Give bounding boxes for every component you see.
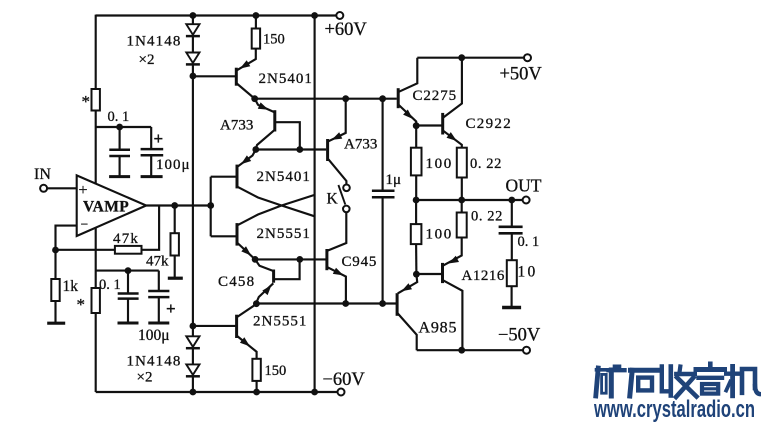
svg-text:+50V: +50V: [500, 65, 543, 85]
wire Q6 collector lead: [237, 304, 256, 317]
wire D3 top lead: [192, 326, 194, 336]
ground 47k vertical: [168, 277, 183, 280]
svg-text:0. 1: 0. 1: [108, 109, 130, 125]
arrow Q4 emitter: [241, 246, 251, 255]
svg-text:×2: ×2: [139, 52, 155, 68]
wire between D1 D2: [192, 37, 194, 53]
node bottom rail / 150 resistor: [253, 389, 260, 396]
wire Q2 collector lead: [256, 129, 275, 149]
switch K upper contact: [343, 185, 350, 192]
wire bottom -60V rail: [96, 391, 338, 393]
svg-text:*: *: [77, 295, 86, 314]
svg-text:47k: 47k: [113, 231, 139, 247]
node drive/1u cap: [379, 95, 386, 102]
wire long center vertical: [314, 16, 316, 393]
wire 1k to ground: [54, 301, 56, 322]
wire 1k top lead: [54, 250, 56, 279]
wire left vertical lower: [95, 313, 97, 392]
arrow Q1 emitter: [240, 60, 251, 68]
wire D4 to bottom rail: [192, 377, 194, 392]
wire 150 top lead: [255, 16, 257, 29]
node 0.1 cap top: [116, 124, 123, 131]
svg-text:+: +: [79, 182, 88, 199]
capacitor 100u lower plates: [148, 290, 169, 293]
wire Q5 base L-wire: [275, 261, 300, 279]
wire Q5 collector lead: [255, 259, 274, 271]
node A1216 base / A985 emitter: [413, 271, 420, 278]
resistor R 150 upper: [252, 29, 260, 49]
capacitor 0.1 lower lead: [127, 271, 129, 293]
node bottom rail / long vertical: [311, 389, 318, 396]
diode D1 1N4148: [186, 24, 199, 35]
watermark logo char yin: [696, 364, 725, 394]
arrow Q12 emitter: [401, 283, 412, 291]
capacitor 0.1 upper plates: [109, 149, 130, 152]
node top rail / diode column: [190, 12, 197, 19]
wire op-amp output: [146, 204, 211, 206]
svg-text:2N5551: 2N5551: [257, 226, 311, 242]
wire Q1 collector lead: [237, 84, 255, 99]
resistor 100 lower lead: [415, 200, 417, 224]
node +50V / C2922 collector: [458, 54, 465, 61]
svg-text:150: 150: [263, 32, 285, 48]
wire Q1 emitter lead: [237, 49, 256, 71]
node feedback: [52, 247, 59, 254]
resistor 1k: [51, 279, 59, 301]
transistor Q8 C945 bar: [325, 249, 328, 270]
resistor 0.22 lower: [457, 213, 467, 238]
wire 47k to output: [142, 206, 160, 250]
wire left vertical upper: [95, 15, 97, 89]
capacitor 100u lower bottom lead: [158, 297, 160, 322]
transistor Q4 2N5551 bar: [236, 223, 239, 246]
transistor Q6 2N5551 bar: [235, 315, 238, 338]
resistor 47k vertical lead: [174, 206, 176, 234]
arrow Q6 emitter: [240, 337, 250, 346]
svg-text:1N4148: 1N4148: [127, 354, 182, 370]
svg-text:0. 1: 0. 1: [518, 234, 540, 250]
svg-text:www.crystalradio.cn: www.crystalradio.cn: [593, 396, 755, 423]
svg-text:0. 1: 0. 1: [99, 277, 121, 293]
wire Q10 base: [416, 124, 441, 126]
wire Q5 emitter lead: [256, 283, 273, 303]
resistor R 150 lower: [252, 359, 260, 381]
node drive/A733-2 emitter: [342, 95, 349, 102]
terminal IN: [40, 185, 47, 192]
wire Q7 collector lead: [328, 159, 346, 184]
svg-text:VAMP: VAMP: [83, 199, 129, 216]
capacitor 100u upper lead: [150, 127, 152, 148]
capacitor 100u upper plates: [141, 148, 164, 151]
node diodes / 2N5401 base: [190, 73, 197, 80]
node drive/Q1 collector: [251, 95, 258, 102]
terminal -50V: [523, 347, 530, 354]
node OUT/0.22: [458, 197, 465, 204]
node top rail / 150 resistor: [253, 12, 260, 19]
terminal +60V: [336, 12, 343, 19]
svg-text:100: 100: [426, 156, 453, 172]
wire Q9 emitter lead: [399, 105, 416, 126]
resistor 47k horizontal: [115, 246, 142, 254]
node OUT/100: [413, 197, 420, 204]
wire Q1 base from diodes: [193, 75, 235, 77]
arrow Q8 emitter: [333, 268, 344, 276]
ground 1k: [47, 322, 65, 325]
capacitor 1u plates: [372, 190, 395, 193]
wire Q6 emitter lead: [237, 336, 257, 359]
node bottom drive / C945 emitter: [342, 300, 349, 307]
svg-text:2N5401: 2N5401: [259, 71, 313, 87]
svg-text:A1216: A1216: [462, 268, 505, 284]
svg-text:100: 100: [426, 227, 453, 243]
capacitor 0.1 upper bottom lead: [119, 156, 121, 176]
wire Q9 collector lead: [399, 58, 418, 92]
wire bottom drive line: [256, 302, 397, 304]
ground 0.1 upper: [109, 175, 130, 178]
node mid line right: [296, 146, 303, 153]
wire Q3 emitter lead: [238, 150, 256, 167]
wire caps line top: [96, 126, 152, 128]
wire op-amp output to bases vertical: [210, 177, 212, 237]
node OUT/0.1: [508, 197, 515, 204]
svg-text:A733: A733: [344, 137, 377, 153]
capacitor 0.1 lower plates: [118, 292, 139, 295]
wire Q8 collector lead: [328, 212, 347, 250]
wire Q12 emitter lead: [398, 274, 418, 293]
wire Q8 emitter lead: [328, 267, 346, 303]
resistor 100 upper lead: [415, 126, 417, 148]
svg-text:C2922: C2922: [466, 116, 513, 132]
transistor Q5 C458 bar: [272, 270, 275, 283]
switch K lever: [338, 185, 345, 205]
node lower mid left: [252, 256, 259, 263]
svg-text:C945: C945: [342, 254, 378, 270]
resistor 47k vertical: [171, 233, 179, 255]
node C2922 base: [413, 122, 420, 129]
resistor * upper: [92, 89, 100, 111]
wire 100 lower to node: [415, 244, 417, 274]
wire diode column middle: [192, 65, 194, 326]
node output/47k: [171, 202, 178, 209]
transistor Q10 C2922 bar: [441, 113, 444, 135]
wire Q10 emitter lead: [443, 131, 462, 148]
capacitor 0.1 right plates: [499, 225, 523, 228]
svg-text:47k: 47k: [146, 254, 169, 270]
diode D4 1N4148: [186, 364, 199, 375]
wire Q7 emitter lead: [328, 99, 345, 142]
wire Q3 base: [211, 176, 236, 178]
wire Q4 base: [211, 235, 236, 237]
watermark logo char ji: [726, 366, 761, 395]
svg-text:−50V: −50V: [498, 326, 541, 346]
svg-text:+: +: [154, 129, 164, 148]
wire caps line bottom: [96, 270, 159, 272]
capacitor 100u lower lead: [158, 271, 160, 291]
wire top +60V rail: [96, 14, 337, 16]
svg-text:−60V: −60V: [323, 370, 366, 390]
node 0.1 cap bottom: [125, 267, 132, 274]
node bottom drive / 1u cap: [379, 300, 386, 307]
arrow Q9 emitter: [403, 110, 413, 120]
op-amp VAMP triangle: [77, 175, 147, 236]
resistor 100 upper: [411, 148, 422, 176]
terminal OUT: [523, 197, 530, 204]
svg-text:−: −: [81, 217, 89, 232]
svg-text:1k: 1k: [63, 278, 79, 295]
diode D3 1N4148: [186, 336, 199, 347]
arrow Q5 emitter: [262, 285, 271, 295]
resistor * lower: [92, 288, 100, 313]
ground 100u upper: [141, 175, 163, 178]
node mid line left: [252, 146, 259, 153]
svg-text:10: 10: [518, 264, 538, 281]
wire -50V rail: [417, 349, 524, 351]
wire Q11 collector lead: [443, 280, 462, 350]
wire Q10 collector lead: [443, 58, 462, 118]
capacitor 0.1 upper lead: [119, 127, 121, 149]
svg-text:1μ: 1μ: [386, 172, 402, 188]
wire 100 upper to OUT: [415, 175, 417, 200]
wire Q2 emitter lead from node: [255, 99, 276, 113]
wire Q3 collector lead crossing: [238, 187, 315, 217]
svg-text:OUT: OUT: [506, 176, 542, 196]
svg-text:×2: ×2: [137, 370, 153, 386]
ground 0.1 lower: [118, 322, 139, 325]
resistor 100 lower: [411, 224, 422, 244]
transistor Q7 A733 bar: [326, 139, 329, 161]
svg-text:A733: A733: [220, 118, 253, 134]
node output/bases: [207, 202, 214, 209]
node lower mid right: [296, 256, 303, 263]
svg-text:A985: A985: [419, 320, 458, 337]
wire between D3 D4: [192, 349, 194, 365]
arrow Q11 emitter: [448, 256, 459, 264]
svg-text:IN: IN: [34, 166, 51, 183]
diode D2 1N4148: [186, 53, 199, 64]
svg-text:100μ: 100μ: [156, 157, 191, 173]
arrow Q7 emitter: [332, 132, 343, 140]
svg-text:2N5401: 2N5401: [257, 169, 311, 185]
node bottom rail / diode column: [190, 389, 197, 396]
wire feedback from minus input: [56, 226, 77, 250]
svg-text:0. 22: 0. 22: [471, 209, 503, 225]
svg-text:+: +: [166, 299, 176, 318]
wire Q4 collector lead crossing: [238, 195, 315, 225]
arrow Q2 emitter: [258, 102, 269, 109]
watermark logo char shi: [630, 370, 658, 396]
wire diode column top lead: [192, 16, 194, 25]
wire +50V rail: [417, 57, 524, 59]
svg-text:C458: C458: [218, 274, 255, 290]
wire OUT line: [416, 199, 523, 201]
transistor Q9 C2275 bar: [397, 88, 400, 108]
watermark logo char shou: [662, 367, 697, 398]
resistor 10 lead: [511, 233, 513, 260]
svg-text:100μ: 100μ: [138, 327, 170, 344]
transistor Q1 2N5401 bar: [235, 68, 238, 86]
svg-text:*: *: [82, 92, 91, 111]
svg-text:K: K: [327, 191, 339, 208]
watermark logo char kuang: [596, 366, 625, 396]
wire 0.22 upper to OUT: [461, 178, 463, 201]
arrow Q3 emitter: [241, 155, 251, 164]
transistor Q2 A733 bar: [273, 110, 276, 131]
wire Q6 base: [193, 325, 236, 327]
wire mid drive line upper: [256, 148, 326, 150]
wire 47k vertical to ground: [174, 256, 176, 278]
node -50V / A1216 collector: [458, 347, 465, 354]
resistor 0.22 lower lead: [461, 200, 463, 213]
svg-text:C2275: C2275: [413, 88, 458, 104]
svg-text:0. 22: 0. 22: [470, 156, 502, 172]
wire Q4 emitter lead: [238, 243, 256, 259]
svg-text:+60V: +60V: [325, 20, 368, 40]
svg-text:2N5551: 2N5551: [253, 314, 307, 330]
arrow Q10 emitter: [447, 132, 457, 141]
wire Q2 base L-wire: [276, 122, 300, 148]
wire 0.22 lower to A1216: [461, 238, 463, 244]
wire IN to op-amp: [47, 187, 77, 189]
ground 100u lower: [148, 322, 169, 325]
wire 10 to ground: [511, 286, 513, 306]
svg-text:1N4148: 1N4148: [127, 34, 182, 50]
wire Q11 emitter lead: [443, 244, 462, 266]
transistor Q11 A1216 bar: [441, 263, 444, 283]
node top rail / long vertical: [311, 12, 318, 19]
transistor Q12 A985 bar: [396, 293, 399, 316]
switch K lower contact: [343, 206, 350, 213]
wire left vertical to op-amp V+: [95, 111, 97, 185]
transistor Q3 2N5401 bar: [236, 165, 239, 189]
resistor 10: [507, 260, 517, 286]
wire 150 lower to rail: [256, 381, 258, 392]
node bottom drive left: [253, 300, 260, 307]
wire op-amp V- to lower caps: [95, 227, 97, 288]
wire feedback to 47k: [56, 249, 115, 251]
capacitor 0.1 right lead: [511, 200, 513, 226]
svg-text:150: 150: [265, 363, 287, 379]
wire top drive line: [255, 98, 397, 100]
terminal -60V: [338, 389, 345, 396]
wire Q12 collector lead: [398, 313, 417, 350]
capacitor 1u top lead: [382, 99, 384, 190]
capacitor 0.1 lower bottom lead: [127, 299, 129, 322]
ground right: [502, 306, 521, 310]
wire mid drive line lower: [255, 258, 326, 260]
wire Q11 base: [416, 273, 441, 275]
node diodes / 2N5551 base: [190, 323, 197, 330]
resistor 0.22 upper: [457, 148, 467, 178]
capacitor 1u bottom lead: [382, 197, 384, 303]
capacitor 100u upper bottom lead: [150, 155, 152, 175]
terminal +50V: [524, 54, 531, 61]
